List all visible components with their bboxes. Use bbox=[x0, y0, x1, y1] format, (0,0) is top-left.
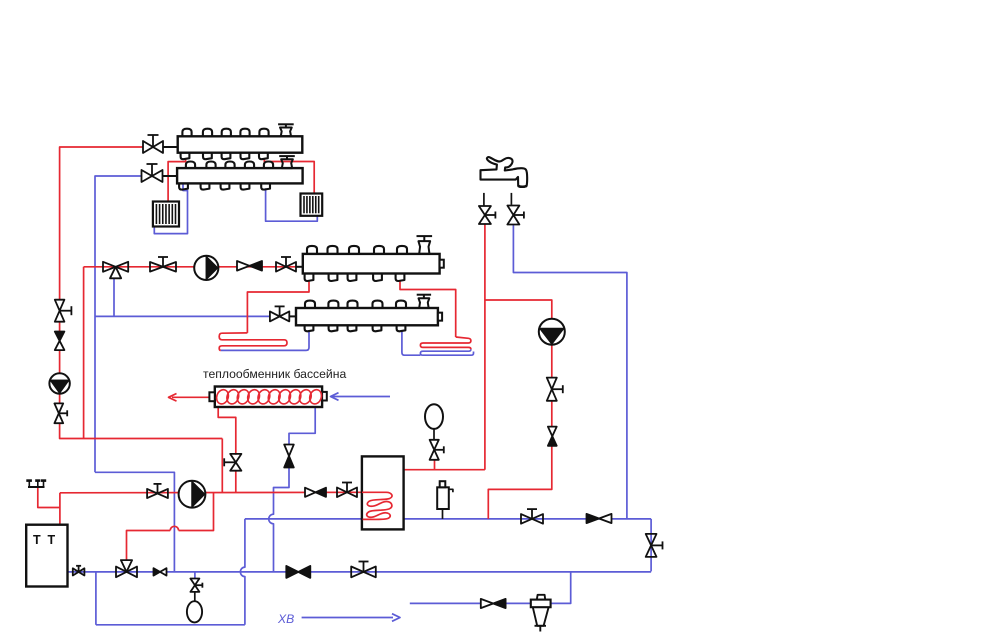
svg-text:теплообменник бассейна: теплообменник бассейна bbox=[203, 367, 346, 381]
wire red drop from header to boiler supply line bbox=[221, 439, 223, 493]
wire red hot water riser to faucet bbox=[484, 225, 486, 470]
check valve on cold inlet bbox=[481, 599, 506, 608]
wire red safety group connection bbox=[38, 488, 60, 508]
valve on manifold M2 outlet bbox=[142, 164, 178, 182]
wire blue floor loop 1 return to manifold M4 bbox=[221, 331, 309, 351]
wire blue riser to cold water line (hops left over return line) bbox=[240, 519, 245, 625]
boiler drain valve bbox=[73, 566, 85, 576]
faucet cold stem bbox=[510, 193, 512, 205]
radiator RAD2 bbox=[301, 194, 323, 216]
expansion vessel bbox=[187, 592, 202, 623]
pump P3 boiler circuit bbox=[179, 481, 206, 508]
wire red manifold M1 to radiator RAD2 bbox=[264, 158, 314, 194]
XB cold water label bbox=[277, 612, 294, 626]
faucet bbox=[481, 157, 528, 187]
radiator RAD1 bbox=[153, 202, 179, 227]
manifold M1 (radiator supply) bbox=[178, 124, 303, 159]
expansion vessel on DHW line bbox=[425, 404, 443, 440]
pool heat exchanger bbox=[209, 387, 326, 408]
wire red manifold M3 supply to floor loop 2 bbox=[400, 281, 456, 337]
valve on cold distribution line bbox=[521, 509, 543, 524]
wire blue XB arrow bbox=[302, 614, 400, 622]
wire blue expansion vessel branch bbox=[194, 572, 196, 579]
pool heat exchanger label bbox=[203, 367, 346, 381]
valve on recirculation line bbox=[547, 378, 563, 401]
manifold M3 (floor heating supply) bbox=[303, 236, 444, 281]
wire red hop bump over blue line bbox=[170, 526, 178, 530]
valve on return line bbox=[351, 562, 376, 578]
wire red floor heating loop 1 coil bbox=[219, 333, 287, 351]
manifold M2 (radiator return) bbox=[177, 156, 303, 190]
wire red left column between check and pump bbox=[59, 350, 61, 375]
check valve before DHW tank coil bbox=[305, 488, 326, 497]
wire blue boiler loop down bbox=[95, 572, 97, 625]
wire red left column to bottom header bbox=[60, 423, 223, 438]
wire red mixing feed with hop to three-way valve bbox=[127, 493, 214, 562]
valve on manifold M1 inlet bbox=[143, 135, 178, 153]
wire blue cold water distribution line bbox=[245, 518, 651, 520]
check valve on recirculation line bbox=[548, 427, 557, 446]
valve below pump P1 bbox=[54, 403, 67, 423]
wire red left column between pump and valve bbox=[59, 393, 61, 404]
DHW tank with coil bbox=[362, 456, 404, 529]
wire blue radiator RAD2 return to manifold M2 bbox=[266, 188, 318, 221]
boiler bbox=[26, 525, 67, 587]
valve on cold riser right bbox=[646, 534, 663, 557]
wire blue faucet cold feed bbox=[513, 225, 627, 519]
wire red boiler top connection bbox=[59, 493, 61, 525]
valve on faucet cold bbox=[507, 206, 524, 225]
three-way mixing valve bbox=[103, 262, 128, 279]
wire blue radiator RAD1 return to manifold M2 bbox=[154, 185, 187, 234]
svg-text:Т Т: Т Т bbox=[33, 533, 57, 547]
valve on manifold M4 return bbox=[270, 306, 296, 321]
dirt filter on cold inlet bbox=[531, 595, 551, 632]
pump P1 left riser bbox=[49, 373, 69, 393]
check valve on mixing pump line bbox=[237, 261, 262, 271]
valve on pool HX feed bbox=[224, 454, 241, 471]
valve on faucet hot bbox=[479, 206, 496, 224]
wire red branch to mixing circuit bbox=[83, 267, 85, 439]
wire red floor heating loop 2 coil bbox=[420, 337, 471, 349]
wire red left column between valve and check bbox=[59, 322, 61, 332]
three-way valve on boiler return bbox=[116, 560, 137, 577]
check valve on cold distribution line bbox=[587, 514, 612, 523]
check valve on pool HX primary return bbox=[284, 445, 294, 468]
wire blue cold riser at right with corner down to return line bbox=[650, 519, 652, 572]
shut-off valve (closed) on return line bbox=[286, 566, 310, 578]
faucet hot stem bbox=[483, 193, 485, 206]
valve on manifold M3 inlet bbox=[276, 257, 303, 272]
wire red supply to manifold M1 down left column bbox=[60, 147, 143, 300]
check valve on boiler return bbox=[154, 568, 167, 575]
wire red expansion vessel stem bbox=[434, 460, 436, 470]
valve on boiler supply bbox=[147, 484, 168, 498]
wire red boiler supply line bbox=[60, 491, 362, 494]
manifold M4 (floor heating return) bbox=[296, 295, 442, 332]
wire blue bottom run bbox=[96, 624, 245, 626]
wire blue floor loop 2 bottom run and return to manifold M4 bbox=[402, 331, 474, 356]
wire blue heating return manifold M4 line bbox=[95, 315, 270, 317]
pump P4 DHW recirculation bbox=[539, 319, 565, 345]
valve above expansion vessel bbox=[190, 579, 202, 592]
wire blue pool HX primary return down to boiler return line (hops left over cold line) bbox=[269, 407, 316, 572]
wire red DHW recirculation line bbox=[485, 300, 552, 519]
air separator on cold line bbox=[437, 481, 453, 519]
wire blue stub up to three-way valve bbox=[113, 279, 115, 316]
valve on left riser bbox=[55, 300, 72, 322]
wire blue boiler return main line bbox=[68, 571, 652, 573]
safety group on boiler bbox=[26, 479, 46, 488]
wire red mixing circuit pump line bbox=[84, 266, 297, 268]
wire red pool HX primary feed bbox=[218, 407, 236, 492]
valve on mixing pump line bbox=[150, 257, 176, 272]
wire blue pool-water inlet arrow into heat exchanger bbox=[331, 393, 391, 401]
valve before DHW tank coil bbox=[337, 483, 357, 498]
wire red pool HX outlet arrow to pool bbox=[169, 394, 210, 402]
wire red manifold M3 supply to floor loop 1 bbox=[247, 281, 309, 333]
wire red manifold M1 to radiator RAD1 bbox=[168, 158, 186, 202]
wire blue return down-right to boiler return line bbox=[95, 472, 174, 572]
pump P2 mixing circuit bbox=[194, 256, 218, 280]
wire blue return from manifold M2 valve down the left side bbox=[95, 176, 142, 472]
wire blue cold inlet riser bbox=[410, 571, 571, 603]
valve under DHW expansion vessel bbox=[430, 440, 444, 460]
svg-text:ХВ: ХВ bbox=[277, 612, 294, 626]
wire red DHW tank hot outlet bbox=[404, 469, 485, 471]
check valve on left riser bbox=[55, 332, 65, 351]
